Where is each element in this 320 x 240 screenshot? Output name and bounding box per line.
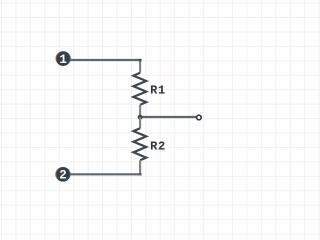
wire from terminal 1 to R1 top pin [66,59,141,61]
terminal 1 [56,51,71,67]
wire from R2 bottom corner to terminal 2 [66,173,141,175]
resistor R2 [133,128,146,160]
terminal 2 [56,167,71,183]
R2 top pin lead from junction [139,117,141,128]
svg-text:1: 1 [59,53,67,67]
R1 top pin lead [139,60,141,73]
R1 bottom pin lead to junction [139,105,141,117]
corner joint at R2 bottom [139,173,142,176]
R2 bottom pin lead [139,160,141,175]
svg-text:R1: R1 [150,83,166,97]
svg-text:R2: R2 [150,139,166,153]
svg-text:2: 2 [59,169,67,183]
wire from junction to output terminal [140,116,196,118]
resistor R1 [133,73,146,105]
corner joint at R1 top [139,59,142,62]
junction node between R1 and R2 [138,115,143,120]
output terminal open circle o [197,115,202,120]
